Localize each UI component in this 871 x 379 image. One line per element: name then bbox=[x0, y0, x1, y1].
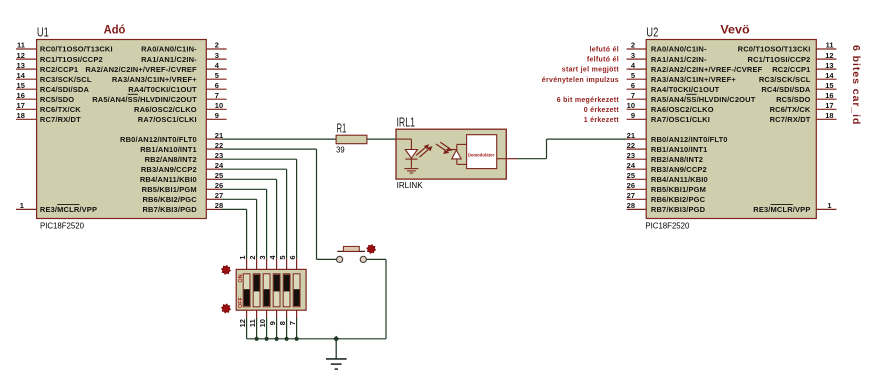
R1 reference label bbox=[337, 122, 347, 136]
U2 pin 11 (RC0/T1OSO/T13CKI) bbox=[738, 41, 837, 54]
svg-text:Vevö: Vevö bbox=[720, 25, 749, 37]
U1 part title Adó bbox=[104, 25, 126, 37]
U1 pin 21 (RB0/AN12/INT0/FLT0) bbox=[120, 131, 223, 144]
wire U1 RB5 to DIP switch pin 3 bbox=[222, 189, 267, 258]
svg-text:5: 5 bbox=[278, 255, 287, 259]
svg-text:7: 7 bbox=[288, 321, 297, 325]
svg-text:IRL1: IRL1 bbox=[397, 116, 416, 130]
svg-text:22: 22 bbox=[627, 141, 635, 150]
svg-text:RA2/AN2/C2IN+/VREF-/CVREF: RA2/AN2/C2IN+/VREF-/CVREF bbox=[651, 65, 763, 74]
svg-text:RA1/AN1/C2IN-: RA1/AN1/C2IN- bbox=[141, 55, 197, 64]
svg-text:RB6/KBI2/PGC: RB6/KBI2/PGC bbox=[651, 195, 706, 204]
svg-text:13: 13 bbox=[825, 61, 833, 70]
marker star left-bottom of DIP switch bbox=[222, 304, 231, 313]
U2 pin 28 (RB7/KBI3/PGD) bbox=[627, 201, 706, 214]
U2 pin 9 (RA7/OSC1/CLKI) bbox=[627, 111, 710, 124]
svg-text:RA6/OSC2/CLKO: RA6/OSC2/CLKO bbox=[651, 105, 714, 114]
U2 pin 26 (RB5/KBI1/PGM) bbox=[627, 181, 706, 194]
svg-text:U1: U1 bbox=[37, 26, 49, 40]
DIP switch top pin stub 4 bbox=[276, 258, 278, 269]
svg-text:8: 8 bbox=[278, 321, 287, 325]
svg-text:2: 2 bbox=[215, 41, 219, 50]
svg-text:21: 21 bbox=[627, 131, 635, 140]
svg-text:26: 26 bbox=[215, 181, 223, 190]
push button actuator bbox=[337, 246, 365, 251]
svg-text:24: 24 bbox=[215, 161, 224, 170]
U2 pin 3 (RA1/AN1/C2IN-) bbox=[627, 51, 707, 64]
DIP switch pin number 10 bbox=[258, 319, 267, 327]
svg-text:1: 1 bbox=[238, 255, 247, 259]
DIP switch pin number 1 bbox=[238, 255, 247, 259]
svg-text:RB1/AN10/INT1: RB1/AN10/INT1 bbox=[651, 145, 708, 154]
svg-text:RC3/SCK/SCL: RC3/SCK/SCL bbox=[40, 75, 92, 84]
svg-text:RB6/KBI2/PGC: RB6/KBI2/PGC bbox=[142, 195, 197, 204]
junction on ground bus x=296.6 bbox=[295, 337, 299, 341]
svg-text:2: 2 bbox=[631, 41, 635, 50]
annotation "0 érkezett" bbox=[584, 107, 620, 114]
U2 part title Vevö bbox=[720, 25, 749, 37]
DIP switch element 3 bbox=[263, 274, 270, 307]
U1 pin 13 (RC2/CCP1) bbox=[16, 61, 78, 74]
svg-text:27: 27 bbox=[215, 191, 223, 200]
junction on ground bus x=256.6 bbox=[255, 337, 259, 341]
svg-text:6: 6 bbox=[631, 81, 635, 90]
DIP switch top pin stub 6 bbox=[296, 258, 298, 269]
U1 pin 14 (RC3/SCK/SCL) bbox=[16, 71, 92, 84]
IRL1 value IRLINK bbox=[397, 180, 423, 190]
U2 pin 17 (RC6/TX/CK) bbox=[770, 101, 837, 114]
IRL1 emitted IR arrows bbox=[416, 144, 432, 157]
wire U1 RB4 to DIP switch pin 4 bbox=[222, 179, 277, 258]
DIP switch pin number 7 bbox=[288, 321, 297, 325]
svg-text:16: 16 bbox=[825, 91, 833, 100]
DIP switch bottom pin stub 8 bbox=[286, 310, 288, 318]
svg-text:RB5/KBI1/PGM: RB5/KBI1/PGM bbox=[142, 185, 197, 194]
U1 pin 27 (RB6/KBI2/PGC) bbox=[142, 191, 223, 204]
svg-text:15: 15 bbox=[825, 81, 833, 90]
DIP switch bottom pin stub 9 bbox=[276, 310, 278, 318]
svg-text:RA4/T0CKI/C1OUT: RA4/T0CKI/C1OUT bbox=[128, 85, 197, 94]
svg-text:OFF: OFF bbox=[238, 296, 244, 308]
svg-text:RA5/AN4/SS/HLVDIN/C2OUT: RA5/AN4/SS/HLVDIN/C2OUT bbox=[92, 95, 197, 104]
svg-text:RC7/RX/DT: RC7/RX/DT bbox=[40, 115, 81, 124]
wire DIP switch pin 11 to ground bus bbox=[256, 318, 258, 339]
U2 pin 14 (RC3/SCK/SCL) bbox=[759, 71, 837, 84]
wire DIP switch pin 8 to ground bus bbox=[286, 318, 288, 339]
microcontroller U2 body bbox=[646, 40, 816, 219]
svg-text:Adó: Adó bbox=[104, 25, 126, 37]
svg-text:RC7/RX/DT: RC7/RX/DT bbox=[770, 115, 811, 124]
junction at ground stem bbox=[333, 336, 339, 342]
svg-text:RC2/CCP1: RC2/CCP1 bbox=[40, 65, 78, 74]
svg-text:RB7/KBI3/PGD: RB7/KBI3/PGD bbox=[142, 205, 197, 214]
svg-text:6: 6 bbox=[288, 255, 297, 259]
svg-text:14: 14 bbox=[17, 71, 26, 80]
svg-text:10: 10 bbox=[627, 101, 635, 110]
DIP switch element 5 bbox=[283, 274, 290, 307]
U1 value PIC18F2520 bbox=[40, 220, 84, 230]
IRL1 internal LED ground bbox=[404, 169, 418, 173]
wire U1 RB0 to R1 bbox=[222, 138, 336, 140]
svg-text:RC0/T1OSO/T13CKI: RC0/T1OSO/T13CKI bbox=[738, 45, 811, 54]
svg-text:RA2/AN2/C2IN+/VREF-/CVREF: RA2/AN2/C2IN+/VREF-/CVREF bbox=[85, 65, 197, 74]
svg-text:RC4/SDI/SDA: RC4/SDI/SDA bbox=[40, 85, 90, 94]
U1 pin 6 (RA4/T0CKI/C1OUT) bbox=[128, 81, 226, 94]
DIP switch element 6 bbox=[293, 274, 300, 307]
svg-text:1 érkezett: 1 érkezett bbox=[584, 117, 620, 124]
DIP switch pin number 2 bbox=[248, 255, 257, 259]
svg-text:1: 1 bbox=[827, 201, 831, 210]
svg-text:22: 22 bbox=[215, 141, 223, 150]
U2 pin 27 (RB6/KBI2/PGC) bbox=[627, 191, 706, 204]
DIP switch element 1 bbox=[243, 274, 250, 307]
U2 pin 22 (RB1/AN10/INT1) bbox=[627, 141, 708, 154]
junction on ground bus x=286.6 bbox=[285, 337, 289, 341]
U1 pin 26 (RB5/KBI1/PGM) bbox=[142, 181, 224, 194]
U1 reference designator bbox=[37, 26, 49, 40]
svg-text:RA5/AN4/SS/HLVDIN/C2OUT: RA5/AN4/SS/HLVDIN/C2OUT bbox=[651, 95, 756, 104]
U1 pin 17 (RC6/TX/CK) bbox=[16, 101, 81, 114]
svg-text:10: 10 bbox=[215, 101, 223, 110]
DIP switch top pin stub 3 bbox=[266, 258, 268, 269]
IRL1 output pin stub bbox=[506, 158, 517, 160]
U1 pin 9 (RA7/OSC1/CLKI) bbox=[138, 111, 227, 124]
DIP switch pin number 12 bbox=[238, 319, 247, 327]
svg-text:18: 18 bbox=[825, 111, 833, 120]
svg-text:RC5/SDO: RC5/SDO bbox=[776, 95, 810, 104]
wire U1 RB2 to DIP switch pin 6 bbox=[222, 159, 297, 258]
DIP switch pin number 3 bbox=[258, 255, 267, 259]
wire DIP switch pin 9 to ground bus bbox=[276, 318, 278, 339]
U1 pin 2 (RA0/AN0/C1IN-) bbox=[141, 41, 227, 54]
svg-text:PIC18F2520: PIC18F2520 bbox=[645, 220, 689, 230]
svg-text:RC4/SDI/SDA: RC4/SDI/SDA bbox=[761, 85, 811, 94]
svg-text:15: 15 bbox=[17, 81, 25, 90]
DIP switch pin number 4 bbox=[268, 255, 277, 260]
svg-text:RA0/AN0/C1IN-: RA0/AN0/C1IN- bbox=[141, 45, 197, 54]
svg-text:RC6/TX/CK: RC6/TX/CK bbox=[770, 105, 811, 114]
svg-text:5: 5 bbox=[215, 71, 219, 80]
DIP switch top pin stub 2 bbox=[256, 258, 258, 269]
svg-text:11: 11 bbox=[248, 319, 257, 327]
svg-text:28: 28 bbox=[215, 201, 223, 210]
U1 pin 25 (RB4/AN11/KBI0) bbox=[140, 171, 223, 184]
svg-text:RB2/AN8/INT2: RB2/AN8/INT2 bbox=[145, 155, 197, 164]
microcontroller U1 body bbox=[37, 40, 207, 219]
svg-text:RA1/AN1/C2IN-: RA1/AN1/C2IN- bbox=[651, 55, 707, 64]
svg-text:RB3/AN9/CCP2: RB3/AN9/CCP2 bbox=[651, 165, 707, 174]
annotation "lefutó él" bbox=[589, 47, 619, 54]
svg-text:7: 7 bbox=[215, 91, 219, 100]
svg-text:R1: R1 bbox=[337, 122, 347, 136]
U2 pin 13 (RC2/CCP1) bbox=[772, 61, 836, 74]
DIP switch top pin stub 5 bbox=[286, 258, 288, 269]
svg-text:2: 2 bbox=[248, 255, 257, 259]
svg-text:25: 25 bbox=[627, 171, 635, 180]
svg-text:18: 18 bbox=[17, 111, 25, 120]
IRL1 received IR arrows bbox=[436, 142, 453, 154]
IRL1 demodulator block bbox=[467, 135, 497, 169]
svg-text:start jel megjött: start jel megjött bbox=[562, 67, 620, 74]
DIP switch bottom pin stub 12 bbox=[246, 310, 248, 318]
IRL1 internal output wire bbox=[497, 158, 507, 160]
DIP switch ON label bbox=[238, 274, 244, 282]
svg-text:U2: U2 bbox=[646, 26, 658, 40]
junction on ground bus x=266.6 bbox=[265, 337, 269, 341]
DIP switch element 4 bbox=[273, 274, 280, 307]
DIP switch body bbox=[236, 269, 306, 310]
svg-text:RB5/KBI1/PGM: RB5/KBI1/PGM bbox=[651, 185, 706, 194]
svg-text:RC1/T1OSI/CCP2: RC1/T1OSI/CCP2 bbox=[748, 55, 811, 64]
svg-text:0 érkezett: 0 érkezett bbox=[584, 107, 620, 114]
svg-text:RC6/TX/CK: RC6/TX/CK bbox=[40, 105, 81, 114]
push button right contact bbox=[360, 256, 366, 262]
U1 pin 5 (RA3/AN3/C1IN+/VREF+) bbox=[112, 71, 227, 84]
U2 pin 1 (RE3/MCLR/VPP) bbox=[753, 201, 836, 214]
wire U1 RB7 to DIP switch pin 1 bbox=[222, 209, 247, 258]
U2 pin 24 (RB3/AN9/CCP2) bbox=[627, 161, 707, 174]
svg-text:RA7/OSC1/CLKI: RA7/OSC1/CLKI bbox=[138, 115, 197, 124]
U2 reference designator bbox=[646, 26, 658, 40]
DIP switch pin number 6 bbox=[288, 255, 297, 259]
svg-text:RC2/CCP1: RC2/CCP1 bbox=[772, 65, 810, 74]
svg-text:21: 21 bbox=[215, 131, 223, 140]
R1 value 39 bbox=[336, 144, 345, 154]
svg-text:RB4/AN11/KBI0: RB4/AN11/KBI0 bbox=[140, 175, 197, 184]
svg-text:RC5/SDO: RC5/SDO bbox=[40, 95, 74, 104]
svg-text:RB2/AN8/INT2: RB2/AN8/INT2 bbox=[651, 155, 703, 164]
svg-text:1: 1 bbox=[20, 201, 24, 210]
svg-text:3: 3 bbox=[258, 255, 267, 259]
svg-text:10: 10 bbox=[258, 319, 267, 327]
DIP switch pin number 8 bbox=[278, 321, 287, 325]
DIP switch element 2 bbox=[253, 274, 260, 307]
marker star right of button bbox=[367, 245, 376, 254]
U2 pin 18 (RC7/RX/DT) bbox=[770, 111, 837, 124]
U1 pin 11 (RC0/T1OSO/T13CKI) bbox=[16, 41, 113, 54]
push button left contact bbox=[337, 256, 343, 262]
U2 pin 6 (RA4/T0CKI/C1OUT) bbox=[627, 81, 720, 94]
svg-text:17: 17 bbox=[17, 101, 25, 110]
svg-text:ON: ON bbox=[238, 274, 244, 282]
ground bus wire bbox=[247, 338, 386, 340]
annotation "start jel megjött" bbox=[562, 67, 620, 74]
annotation "6 bites car_id" bbox=[850, 45, 862, 125]
svg-text:RB1/AN10/INT1: RB1/AN10/INT1 bbox=[140, 145, 197, 154]
svg-text:RB7/KBI3/PGD: RB7/KBI3/PGD bbox=[651, 205, 706, 214]
annotation "1 érkezett" bbox=[584, 117, 620, 124]
U1 pin 4 (RA2/AN2/C2IN+/VREF-/CVREF) bbox=[85, 61, 226, 74]
wire U1 RB6 to DIP switch pin 2 bbox=[222, 199, 257, 258]
DIP switch top pin stub 1 bbox=[246, 258, 248, 269]
svg-text:Demodulátor: Demodulátor bbox=[468, 152, 495, 157]
DIP switch bottom pin stub 11 bbox=[256, 310, 258, 318]
svg-text:27: 27 bbox=[627, 191, 635, 200]
U1 pin 28 (RB7/KBI3/PGD) bbox=[142, 201, 223, 214]
U2 pin 7 (RA5/AN4/SS/HLVDIN/C2OUT) bbox=[627, 91, 756, 104]
svg-text:12: 12 bbox=[17, 51, 25, 60]
svg-text:RB3/AN9/CCP2: RB3/AN9/CCP2 bbox=[141, 165, 197, 174]
svg-text:12: 12 bbox=[238, 319, 247, 327]
U2 pin 16 (RC5/SDO) bbox=[776, 91, 836, 104]
U2 pin 2 (RA0/AN0/C1IN-) bbox=[627, 41, 707, 54]
annotation "felfutó él" bbox=[587, 57, 619, 64]
U2 pin 15 (RC4/SDI/SDA) bbox=[761, 81, 836, 94]
svg-text:39: 39 bbox=[336, 144, 345, 154]
IRL1 reference label bbox=[397, 116, 416, 130]
svg-text:9: 9 bbox=[631, 111, 635, 120]
svg-text:felfutó él: felfutó él bbox=[587, 57, 619, 64]
svg-text:6 bites car_id: 6 bites car_id bbox=[850, 45, 862, 125]
svg-text:12: 12 bbox=[825, 51, 833, 60]
svg-text:3: 3 bbox=[631, 51, 635, 60]
svg-text:11: 11 bbox=[17, 41, 25, 50]
svg-text:RB4/AN11/KBI0: RB4/AN11/KBI0 bbox=[651, 175, 708, 184]
U1 pin 23 (RB2/AN8/INT2) bbox=[145, 151, 224, 164]
IRL1 internal input wire bbox=[396, 139, 411, 149]
svg-text:6 bit megérkezett: 6 bit megérkezett bbox=[557, 97, 620, 104]
svg-text:25: 25 bbox=[215, 171, 223, 180]
U1 pin 3 (RA1/AN1/C2IN-) bbox=[141, 51, 227, 64]
svg-text:7: 7 bbox=[631, 91, 635, 100]
svg-text:9: 9 bbox=[268, 321, 277, 325]
svg-text:3: 3 bbox=[215, 51, 219, 60]
svg-text:RE3/MCLR/VPP: RE3/MCLR/VPP bbox=[40, 205, 97, 214]
DIP switch bottom pin stub 10 bbox=[266, 310, 268, 318]
svg-text:lefutó él: lefutó él bbox=[589, 47, 619, 54]
IRL1 photo detector bbox=[446, 144, 466, 164]
svg-text:RC3/SCK/SCL: RC3/SCK/SCL bbox=[759, 75, 811, 84]
svg-text:RA3/AN3/C1IN+/VREF+: RA3/AN3/C1IN+/VREF+ bbox=[112, 75, 197, 84]
svg-text:6: 6 bbox=[215, 81, 219, 90]
svg-text:PIC18F2520: PIC18F2520 bbox=[40, 220, 84, 230]
IR link IRL1 body bbox=[396, 129, 506, 179]
U1 pin 7 (RA5/AN4/SS/HLVDIN/C2OUT) bbox=[92, 91, 226, 104]
svg-text:RE3/MCLR/VPP: RE3/MCLR/VPP bbox=[753, 205, 810, 214]
wire DIP switch pin 7 to ground bus bbox=[296, 318, 298, 339]
DIP switch bottom pin stub 7 bbox=[296, 310, 298, 318]
svg-text:5: 5 bbox=[631, 71, 635, 80]
svg-text:24: 24 bbox=[627, 161, 636, 170]
svg-text:RC1/T1OSI/CCP2: RC1/T1OSI/CCP2 bbox=[40, 55, 103, 64]
U2 pin 5 (RA3/AN3/C1IN+/VREF+) bbox=[627, 71, 737, 84]
U1 pin 15 (RC4/SDI/SDA) bbox=[16, 81, 89, 94]
wire U1 RB1 to button bbox=[222, 149, 337, 259]
U2 pin 10 (RA6/OSC2/CLKO) bbox=[627, 101, 714, 114]
svg-text:RA0/AN0/C1IN-: RA0/AN0/C1IN- bbox=[651, 45, 707, 54]
svg-text:26: 26 bbox=[627, 181, 635, 190]
wire DIP switch pin 10 to ground bus bbox=[266, 318, 268, 339]
resistor R1 bbox=[336, 135, 367, 144]
U1 pin 10 (RA6/OSC2/CLKO) bbox=[134, 101, 227, 114]
wire button to ground bus bbox=[367, 259, 387, 338]
U1 pin 1 (RE3/MCLR/VPP) bbox=[16, 201, 97, 214]
wire U1 RB3 to DIP switch pin 5 bbox=[222, 169, 287, 258]
svg-text:9: 9 bbox=[215, 111, 219, 120]
U2 pin 21 (RB0/AN12/INT0/FLT0) bbox=[627, 131, 728, 144]
svg-text:11: 11 bbox=[826, 41, 834, 50]
U2 pin 12 (RC1/T1OSI/CCP2) bbox=[748, 51, 837, 64]
DIP switch pin number 11 bbox=[248, 319, 257, 327]
wire DIP switch pin 12 to ground bus bbox=[246, 318, 248, 339]
svg-text:23: 23 bbox=[215, 151, 223, 160]
U2 pin 23 (RB2/AN8/INT2) bbox=[627, 151, 704, 164]
wire IRL1 output to U2 RB0 bbox=[517, 139, 627, 159]
U2 pin 25 (RB4/AN11/KBI0) bbox=[627, 171, 708, 184]
DIP switch pin number 9 bbox=[268, 321, 277, 325]
annotation "6 bit megérkezett" bbox=[557, 97, 620, 104]
U1 pin 18 (RC7/RX/DT) bbox=[16, 111, 81, 124]
svg-text:érvénytelen impulzus: érvénytelen impulzus bbox=[542, 77, 619, 84]
junction on ground bus x=276.6 bbox=[275, 337, 279, 341]
svg-text:RA7/OSC1/CLKI: RA7/OSC1/CLKI bbox=[651, 115, 710, 124]
svg-text:16: 16 bbox=[17, 91, 25, 100]
svg-text:RB0/AN12/INT0/FLT0: RB0/AN12/INT0/FLT0 bbox=[651, 135, 728, 144]
wire R1 to IRL1 bbox=[367, 138, 396, 140]
svg-text:23: 23 bbox=[627, 151, 635, 160]
svg-text:RA6/OSC2/CLKO: RA6/OSC2/CLKO bbox=[134, 105, 197, 114]
svg-text:17: 17 bbox=[825, 101, 833, 110]
DIP switch pin number 5 bbox=[278, 255, 287, 259]
U1 pin 12 (RC1/T1OSI/CCP2) bbox=[16, 51, 103, 64]
annotation "érvénytelen impulzus" bbox=[542, 77, 619, 84]
svg-text:13: 13 bbox=[17, 61, 25, 70]
U1 pin 16 (RC5/SDO) bbox=[16, 91, 74, 104]
DIP switch OFF label bbox=[238, 296, 244, 308]
ground symbol bbox=[326, 339, 347, 369]
svg-text:RB0/AN12/INT0/FLT0: RB0/AN12/INT0/FLT0 bbox=[120, 135, 197, 144]
U1 pin 22 (RB1/AN10/INT1) bbox=[140, 141, 223, 154]
svg-text:RA4/T0CKI/C1OUT: RA4/T0CKI/C1OUT bbox=[651, 85, 720, 94]
U2 value PIC18F2520 bbox=[645, 220, 689, 230]
U1 pin 24 (RB3/AN9/CCP2) bbox=[141, 161, 224, 174]
svg-text:28: 28 bbox=[627, 201, 635, 210]
svg-text:IRLINK: IRLINK bbox=[397, 180, 423, 190]
marker star left-top of DIP switch bbox=[222, 265, 231, 274]
svg-text:RA3/AN3/C1IN+/VREF+: RA3/AN3/C1IN+/VREF+ bbox=[651, 75, 736, 84]
U2 pin 4 (RA2/AN2/C2IN+/VREF-/CVREF) bbox=[627, 61, 763, 74]
IRL1 internal transmit LED bbox=[405, 150, 417, 168]
svg-text:RC0/T1OSO/T13CKI: RC0/T1OSO/T13CKI bbox=[40, 45, 113, 54]
svg-text:14: 14 bbox=[825, 71, 834, 80]
